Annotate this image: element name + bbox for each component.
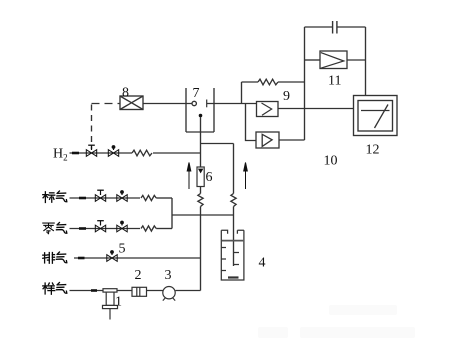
svg-text:10: 10: [324, 154, 338, 169]
svg-text:7: 7: [193, 86, 200, 101]
svg-text:11: 11: [328, 74, 341, 89]
svg-text:6: 6: [206, 170, 213, 185]
svg-text:4: 4: [259, 256, 266, 271]
svg-text:12: 12: [366, 143, 380, 158]
svg-text:2: 2: [135, 268, 142, 283]
svg-text:8: 8: [122, 86, 129, 101]
svg-text:H2: H2: [53, 147, 68, 163]
svg-text:9: 9: [283, 89, 290, 104]
svg-text:3: 3: [165, 268, 172, 283]
svg-text:1: 1: [115, 295, 122, 310]
svg-text:5: 5: [119, 242, 126, 257]
